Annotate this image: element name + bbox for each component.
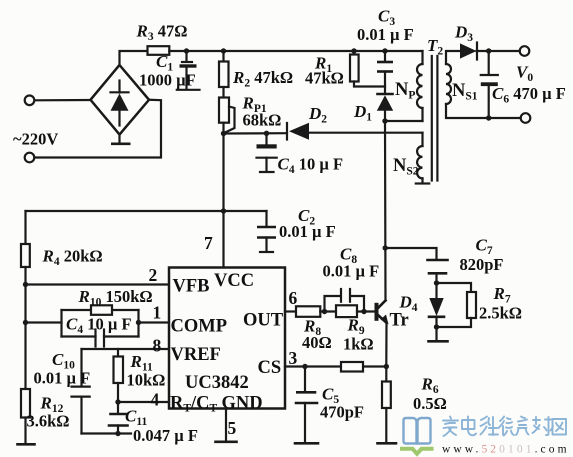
AC input terminal top	[25, 96, 35, 106]
wire snubber top	[385, 248, 436, 260]
node C6 bottom	[486, 115, 491, 120]
svg-text:C6 470 µ F: C6 470 µ F	[492, 84, 566, 106]
ground tick R12	[18, 443, 35, 446]
node RT/CT	[115, 399, 120, 404]
resistor R1	[353, 51, 355, 55]
svg-text:0.01 µ F: 0.01 µ F	[279, 222, 336, 241]
wire VREF pin8	[82, 348, 170, 350]
watermark green ribbon	[400, 449, 434, 454]
svg-text:GND: GND	[222, 394, 263, 414]
svg-text:10kΩ: 10kΩ	[127, 371, 166, 390]
wire bridge top to R3	[120, 51, 148, 65]
capacitor C8 loop	[325, 296, 341, 312]
R10/C4 parallel frame	[60, 310, 62, 337]
svg-text:7: 7	[204, 233, 213, 253]
node VCC junction	[221, 131, 226, 136]
node comp branch	[23, 320, 28, 325]
svg-text:VREF: VREF	[171, 345, 221, 365]
resistor R12	[21, 389, 30, 418]
wire collector vertical	[384, 121, 387, 301]
wire VCC rail horizontal	[26, 210, 267, 212]
capacitor C3	[384, 51, 386, 62]
wire VCC vertical	[222, 134, 224, 268]
capacitor C2	[265, 211, 267, 227]
winding NS1	[446, 51, 460, 64]
svg-text:5: 5	[228, 418, 237, 438]
primary winding NP	[421, 51, 423, 64]
svg-text:0.01 µ F: 0.01 µ F	[34, 369, 91, 388]
wire CS pin3	[285, 365, 386, 367]
bridge rectifier diamond	[91, 65, 150, 135]
node C3 top	[382, 48, 387, 53]
output terminal bottom	[521, 113, 531, 123]
output terminal top	[520, 46, 530, 56]
potentiometer RP1	[219, 98, 229, 123]
resistor R5 (unlabeled)	[341, 362, 363, 372]
node VFB	[23, 282, 28, 287]
wire left branch down	[24, 211, 26, 244]
node D1 anode / NP bottom	[382, 118, 387, 123]
resistor R2	[222, 51, 224, 62]
svg-text:3.6kΩ: 3.6kΩ	[27, 412, 70, 431]
svg-text:2.5kΩ: 2.5kΩ	[479, 304, 522, 323]
capacitor C1	[184, 48, 189, 53]
svg-text:www.520101.com: www.520101.com	[442, 444, 570, 456]
svg-text:C4 10 µ F: C4 10 µ F	[66, 315, 132, 337]
node R2 top	[221, 48, 226, 53]
node R1 top	[351, 48, 356, 53]
main rail wire	[169, 50, 422, 52]
svg-text:COMP: COMP	[171, 317, 228, 337]
node COMP	[136, 320, 141, 325]
svg-text:VFB: VFB	[173, 277, 210, 297]
svg-text:4: 4	[151, 390, 160, 410]
pin 5 wire	[225, 409, 227, 442]
svg-text:47kΩ: 47kΩ	[305, 69, 344, 88]
transistor Q1 Tr	[375, 303, 379, 321]
wire D2 anode to NS2	[309, 132, 423, 134]
svg-text:3: 3	[289, 348, 298, 368]
resistor R10	[91, 305, 112, 315]
svg-text:R2 47kΩ: R2 47kΩ	[232, 68, 293, 90]
capacitor C5	[304, 367, 306, 393]
node snubber tap	[383, 245, 388, 250]
diode D1	[378, 93, 393, 96]
IC U1 UC3842 box	[169, 268, 285, 409]
node D4/R7 top	[434, 280, 439, 285]
svg-text:R3 47Ω: R3 47Ω	[136, 22, 188, 44]
svg-text:Tr: Tr	[390, 311, 409, 331]
svg-text:2: 2	[149, 265, 158, 285]
svg-text:C4 10 µ F: C4 10 µ F	[278, 155, 344, 177]
capacitor C4 (10µF)	[264, 131, 269, 136]
wire VFB pin2	[26, 283, 170, 285]
capacitor C7	[428, 259, 448, 262]
resistor R3	[148, 46, 170, 55]
svg-text:OUT: OUT	[243, 311, 284, 331]
ground tick below bridge	[118, 135, 120, 144]
svg-text:0.01 µ F: 0.01 µ F	[357, 25, 414, 44]
diode D3	[460, 43, 477, 58]
diode D4	[435, 283, 437, 298]
bridge inner diode	[118, 81, 120, 93]
resistor R7	[437, 283, 472, 292]
capacitor C11	[117, 402, 119, 414]
resistor R4	[21, 244, 30, 267]
svg-text:~220V: ~220V	[13, 130, 58, 149]
svg-text:0.047 µ F: 0.047 µ F	[133, 426, 198, 445]
wire OUT pin6	[285, 310, 296, 312]
wire gnd run bottom-left	[82, 432, 132, 434]
svg-text:UC3842: UC3842	[185, 373, 249, 393]
capacitor C6	[488, 51, 490, 75]
wire AC top to bridge left	[35, 99, 91, 102]
svg-text:68kΩ: 68kΩ	[243, 111, 282, 130]
node VCC/C2	[221, 208, 226, 213]
svg-text:0.5Ω: 0.5Ω	[413, 394, 447, 413]
AC input terminal bottom	[25, 153, 35, 163]
svg-text:8: 8	[153, 336, 162, 356]
svg-text:R4 20kΩ: R4 20kΩ	[42, 247, 103, 269]
diode D2	[286, 123, 288, 140]
svg-text:820pF: 820pF	[460, 255, 504, 274]
node R8/R9	[320, 310, 336, 312]
wire COMP pin1	[139, 321, 170, 323]
resistor R9	[336, 305, 357, 317]
svg-text:R10 150kΩ: R10 150kΩ	[78, 287, 153, 309]
watermark book icon	[404, 418, 431, 444]
resistor R8	[296, 306, 320, 317]
resistor R11	[117, 349, 119, 357]
node C5 tap	[302, 364, 307, 369]
node C6 top	[486, 48, 491, 53]
resistor R6	[385, 367, 387, 382]
svg-text:40Ω: 40Ω	[302, 333, 332, 352]
svg-text:470pF: 470pF	[320, 403, 364, 422]
svg-text:1000 µF: 1000 µF	[139, 71, 196, 90]
svg-text:CS: CS	[258, 358, 282, 378]
watermark chinese text	[443, 417, 566, 437]
svg-text:VCC: VCC	[214, 271, 254, 291]
capacitor C10	[80, 349, 82, 386]
svg-text:6: 6	[289, 288, 298, 308]
node emitter junction	[384, 364, 389, 369]
wire pin4	[118, 401, 169, 403]
capacitor C4 (series)	[94, 330, 96, 347]
wire emitter vertical	[385, 323, 387, 367]
wire VCC node to D2	[224, 132, 288, 135]
svg-text:0.01 µ F: 0.01 µ F	[323, 262, 380, 281]
node D4/R7 bottom + ground	[434, 324, 439, 329]
wire to R10/C4 block	[26, 321, 62, 323]
winding NS2	[421, 133, 423, 146]
transformer core T2	[431, 56, 433, 181]
svg-text:1kΩ: 1kΩ	[343, 335, 374, 354]
svg-text:1: 1	[153, 303, 162, 323]
wire NP bottom	[385, 120, 423, 122]
wire AC bottom to bridge right	[35, 100, 161, 158]
